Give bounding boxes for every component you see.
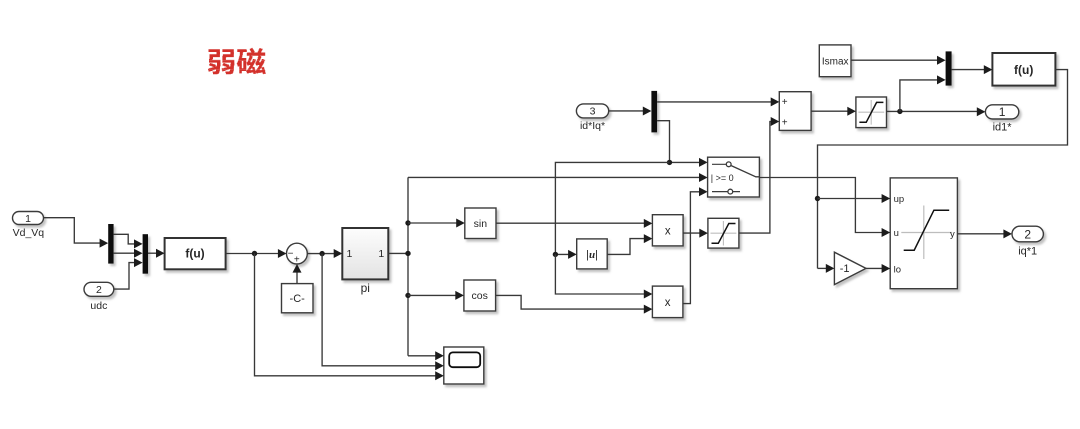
node pi out	[405, 251, 410, 256]
inport 2 udc	[84, 282, 114, 296]
sin block	[465, 208, 496, 239]
wire: continue down to product lower in1	[555, 254, 645, 294]
wire: sum to pi, with branch down to scope in2	[307, 253, 335, 255]
node on switch in1 line	[667, 160, 672, 165]
wire: switch output to u input	[759, 178, 883, 233]
svg-text:-1: -1	[840, 263, 850, 275]
outport 2 iq*1	[1012, 226, 1043, 242]
svg-text:1: 1	[999, 105, 1006, 119]
svg-text:1: 1	[347, 248, 353, 260]
svg-text:id*Iq*: id*Iq*	[580, 120, 605, 132]
wire: product lower up to switch in3	[683, 192, 701, 304]
svg-text:x: x	[665, 226, 671, 238]
svg-text:udc: udc	[90, 300, 107, 312]
abs block |u|	[577, 239, 608, 269]
svg-text:f(u): f(u)	[185, 247, 204, 261]
constant block -C-	[282, 284, 314, 313]
constant block Ismax	[819, 45, 851, 77]
add block ++	[779, 92, 811, 131]
wire: sin to product upper in1	[496, 222, 645, 224]
wire: mux to f(u)	[148, 252, 157, 254]
wire: feedback into gain -1	[818, 267, 828, 269]
wire: left branch down to |u| input	[555, 162, 669, 254]
wire: branch down to scope input 2	[322, 254, 437, 366]
svg-text:up: up	[894, 194, 905, 205]
mux (top right)	[946, 51, 952, 85]
wire: -C- up into sum	[296, 272, 298, 284]
subsystem block pi	[342, 228, 388, 279]
wire: saturation up to add in2	[739, 122, 772, 234]
wire: trunk top to switch control input	[408, 176, 700, 178]
svg-text:id1*: id1*	[993, 122, 1013, 134]
wire: add to saturation top	[811, 110, 849, 112]
wire: trunk to sin	[405, 220, 410, 225]
wire: inport3 to demux	[609, 110, 645, 112]
node after f(u)	[252, 251, 257, 256]
title text 弱磁 (flux weakening), red	[208, 48, 266, 74]
wire: |u| out up to product upper in2	[607, 239, 645, 255]
demux (id*Iq*)	[651, 91, 657, 132]
svg-text:pi: pi	[361, 281, 370, 295]
svg-text:lo: lo	[894, 264, 901, 275]
wire: saturation dynamic y to outport 2	[957, 233, 1004, 235]
svg-text:x: x	[665, 297, 671, 309]
node at |u| input	[553, 252, 558, 257]
saturation dynamic block	[890, 178, 957, 289]
product block x lower	[652, 286, 683, 318]
svg-text:iq*1: iq*1	[1018, 245, 1037, 257]
node after top saturation	[897, 109, 902, 114]
demux (left)	[108, 224, 113, 264]
wire: pi output trunk vertical	[388, 252, 408, 254]
svg-text:+: +	[782, 97, 788, 108]
svg-text:sin: sin	[474, 218, 488, 230]
wire: f(u) output feedback down-left to up/gain	[818, 70, 1068, 269]
svg-text:-C-: -C-	[290, 293, 306, 305]
svg-text:3: 3	[590, 106, 596, 118]
wire: demux out1 to mux in1	[114, 234, 136, 244]
wire: f(u) to sum, with branch down to scope in3	[226, 253, 280, 255]
Fcn block f(u) left	[165, 238, 226, 269]
svg-text:+: +	[782, 117, 788, 128]
wire: trunk to cos	[405, 293, 410, 298]
saturation block (top)	[856, 97, 887, 128]
wire: trunk bottom to scope input 1	[408, 355, 437, 357]
svg-text:1: 1	[25, 213, 31, 225]
saturation dynamic icon	[901, 206, 952, 260]
wire: saturation top to outport id1*, branch up to mux	[887, 110, 979, 112]
switch block	[708, 157, 760, 197]
gain block -1	[834, 252, 866, 284]
wire: mux to f(u) top right	[952, 69, 986, 71]
node after sum	[319, 251, 324, 256]
wire: demux out2 to mux in2	[114, 252, 136, 254]
Fcn block f(u) top right	[992, 53, 1055, 86]
sum junction circle	[287, 243, 308, 264]
wire: branch up to mux in2	[900, 80, 939, 112]
node feedback to up input	[815, 196, 820, 201]
svg-text:|u|: |u|	[586, 249, 598, 261]
switch inner: ports and selector line	[726, 162, 731, 167]
svg-text:Vd_Vq: Vd_Vq	[13, 227, 45, 239]
saturation icon (small block)	[711, 221, 737, 246]
svg-text:+: +	[294, 255, 300, 266]
wire: demux out2 down to switch in1 and across to |u| net	[657, 121, 700, 163]
outport 1 id1*	[985, 105, 1018, 119]
inport 1 Vd_Vq	[13, 212, 44, 225]
svg-text:| >= 0: | >= 0	[711, 173, 734, 183]
wire: inport2 to mux in3	[114, 263, 136, 290]
wire: cos to product lower in2	[496, 295, 646, 309]
svg-text:2: 2	[96, 284, 102, 296]
scope block	[444, 347, 484, 384]
wire: to saturation-dynamic up input	[818, 198, 884, 200]
svg-text:y: y	[950, 229, 955, 240]
svg-text:cos: cos	[472, 290, 488, 302]
wire: product upper to saturation	[683, 232, 701, 234]
svg-text:2: 2	[1024, 227, 1031, 241]
mux (left)	[143, 234, 148, 274]
wire: demux out1 to add in1	[657, 101, 772, 103]
saturation icon (top block)	[858, 100, 884, 125]
wire: inport1 to demux	[44, 218, 102, 243]
wire: Ismax to mux in1	[851, 59, 938, 61]
product block x upper	[652, 215, 683, 246]
svg-text:f(u): f(u)	[1014, 63, 1033, 77]
svg-text:−: −	[288, 249, 294, 260]
svg-text:Ismax: Ismax	[822, 56, 849, 67]
svg-text:1: 1	[378, 248, 384, 260]
svg-text:u: u	[894, 228, 899, 239]
wire: gain to lo input	[866, 267, 883, 269]
cos block	[464, 280, 496, 311]
wire: branch down to scope input 3	[255, 254, 437, 376]
saturation block (small, after product)	[708, 218, 739, 248]
inport 3 id*Iq*	[576, 104, 608, 118]
